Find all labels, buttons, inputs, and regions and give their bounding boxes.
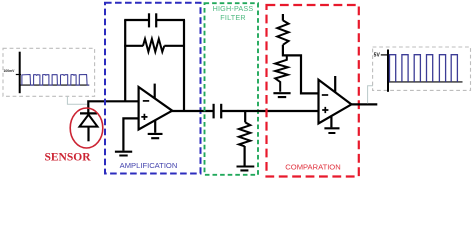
resistor R2 shunt zigzag [239,122,250,146]
photodiode D1 triangle [80,115,98,127]
input signal waveform [22,75,89,86]
photodiode D1 anode lead [87,127,89,142]
shunt resistor R2 top lead [244,111,246,122]
wire top branch left [124,19,149,21]
op-amp U2 triangle [319,80,352,124]
capacitor C2 plates [213,104,215,119]
input plot baseline [20,84,90,86]
op-amp U1 plus input wire [123,118,139,150]
input plot tick [16,74,21,76]
svg-text:AMPLIFICATION: AMPLIFICATION [120,161,178,170]
op-amp U1 minus sign [143,100,149,102]
resistor R3 divider upper zigzag [277,20,288,44]
output plot baseline [388,81,463,83]
shunt resistor R2 bottom lead [244,146,246,166]
output waveform box (dashed gray) [373,47,471,90]
wire sensor node to amplifier minus input [88,101,139,113]
divider node wire [282,55,319,93]
op-amp U1 bottom power pin [154,120,156,133]
callout connector left [67,97,87,105]
op-amp U2 top power pin [334,76,336,93]
high-pass filter box (dashed green) [205,3,259,175]
resistor R3 top stub [282,14,284,21]
sensor highlight ellipse [70,108,103,148]
resistor R1 feedback zigzag [143,39,164,52]
svg-text:5V: 5V [374,53,381,59]
op-amp U2 bottom power pin [330,116,332,128]
svg-text:HIGH-PASS: HIGH-PASS [213,4,254,13]
output plot axis [387,50,389,92]
svg-text:FILTER: FILTER [220,13,245,22]
op-amp U1 plus sign [141,114,147,120]
svg-text:COMPARATION: COMPARATION [285,162,340,171]
op-amp U2 output wire [350,103,377,105]
ground at U1 plus input [115,152,132,156]
amplification stage box (dashed blue) [105,3,201,174]
feedback left rail [124,20,126,101]
wire top branch right [156,19,185,21]
ground under R2 [237,167,255,171]
op-amp U2 plus sign [322,107,328,113]
signal wire C2 to comparator plus input [221,110,318,112]
callout connector right [368,86,373,104]
feedback right rail [183,20,185,111]
resistor R4 divider lower zigzag [275,55,288,91]
ground under R4 [273,93,290,97]
op-amp U2 minus sign [322,94,328,96]
op-amp U1 top power pin [154,84,156,99]
op-amp U1 output wire [170,110,213,112]
input waveform box (dashed gray) [3,48,95,96]
ground under op-amp U1 [148,134,163,138]
comparation stage box (dashed red) [267,5,359,177]
wire resistor branch right [164,45,185,47]
ground under op-amp U2 [324,128,339,133]
svg-text:SENSOR: SENSOR [44,152,91,164]
resistor R3 bottom lead [282,45,284,57]
op-amp U1 triangle [139,87,173,130]
input plot axis [19,52,21,93]
svg-text:100mV: 100mV [3,69,15,73]
wire resistor branch left [124,45,143,47]
photodiode D1 cathode bar [80,112,97,114]
capacitor C1 plates [148,13,150,27]
output square wave [390,55,458,82]
output plot tick [381,54,388,56]
